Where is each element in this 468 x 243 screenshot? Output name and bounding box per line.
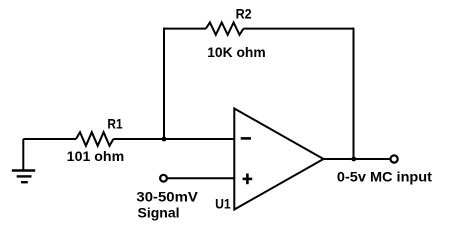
wire feedback right vertical [353, 28, 355, 159]
svg-text:30-50mV: 30-50mV [136, 189, 198, 205]
resistor R1 [76, 132, 113, 146]
terminal output [391, 155, 398, 162]
wire R1 input horizontal [23, 138, 234, 140]
wire top feedback horizontal [164, 28, 354, 30]
wire ground vertical [22, 139, 24, 171]
svg-text:Signal: Signal [138, 204, 180, 220]
svg-text:0-5v MC input: 0-5v MC input [337, 168, 432, 184]
pin plus non-inverting input [243, 174, 253, 185]
pin minus inverting input [241, 137, 251, 140]
ground [12, 171, 35, 183]
svg-text:R1: R1 [107, 115, 122, 131]
resistor R2 [206, 22, 244, 34]
terminal signal input [160, 175, 167, 182]
svg-text:R2: R2 [236, 6, 252, 22]
node junction output / feedback [351, 157, 356, 162]
svg-text:10K ohm: 10K ohm [207, 44, 266, 60]
node junction inverting input / feedback [162, 137, 167, 142]
svg-text:U1: U1 [215, 195, 231, 211]
svg-text:101 ohm: 101 ohm [67, 148, 125, 164]
wire signal to non-inverting input [168, 177, 235, 179]
op-amp U1 [234, 109, 323, 210]
wire feedback left vertical [163, 28, 165, 139]
wire output horizontal [324, 158, 390, 160]
